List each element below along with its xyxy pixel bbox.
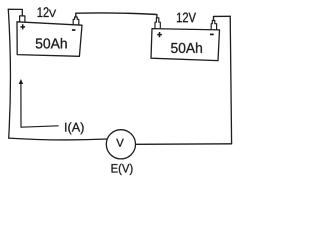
current direction arrowhead	[19, 79, 24, 84]
label 50Ah of BT2	[171, 42, 202, 53]
battery BT1 body	[17, 22, 82, 57]
wire bottom-right segment from voltmeter to right rail	[136, 143, 232, 146]
voltmeter letter V	[116, 139, 124, 147]
wire bottom-left segment to voltmeter	[9, 138, 108, 140]
wire from BT2 - terminal up to top-right corner	[214, 16, 231, 20]
battery BT2 minus mark	[210, 33, 214, 35]
battery BT2 positive terminal post	[155, 18, 160, 29]
current direction arrow shaft and leader line	[21, 83, 59, 127]
battery BT1 minus mark	[72, 29, 76, 31]
wire from BT1 - terminal to BT2 + terminal	[76, 13, 157, 18]
wire left rail (vertical)	[8, 9, 10, 138]
label 50Ah of BT1	[36, 38, 67, 49]
battery BT1 positive terminal post	[20, 16, 25, 22]
battery BT1 plus mark	[20, 24, 25, 29]
voltmeter V1 circle	[106, 130, 135, 159]
battery BT2 plus mark	[157, 32, 162, 37]
label E(V)	[112, 164, 133, 175]
wire from battery BT1 + terminal up and left to top-left corner	[8, 9, 22, 16]
label 12V of BT2	[177, 13, 196, 23]
battery BT2 body	[151, 29, 220, 61]
label 12V of BT1	[38, 7, 57, 17]
label I(A)	[65, 122, 83, 134]
battery BT1 negative terminal post	[73, 17, 79, 25]
battery BT2 negative terminal post	[211, 21, 216, 30]
wire right rail (vertical)	[230, 16, 231, 144]
